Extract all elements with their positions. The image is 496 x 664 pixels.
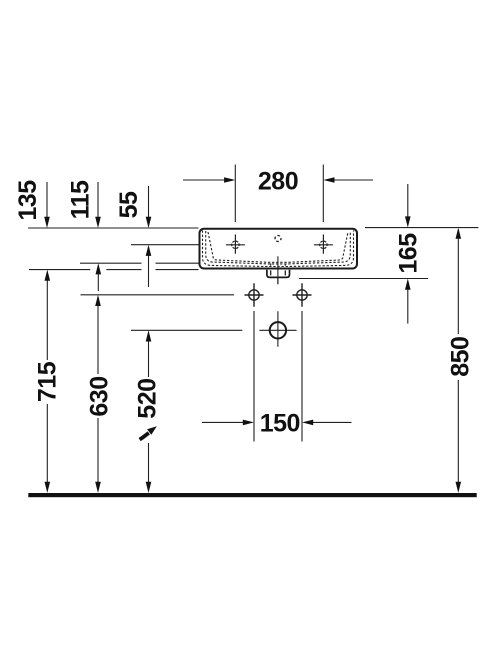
rim level line right	[365, 227, 478, 229]
arrowhead 280 left	[224, 177, 235, 183]
drain tab	[267, 270, 290, 278]
arrowhead 630 top	[95, 295, 101, 306]
arrowhead 135 up / 715 top	[45, 270, 51, 281]
arrowhead 55 up	[146, 245, 152, 256]
arrowhead 280 right	[323, 177, 334, 183]
dimension 520: shaft	[148, 333, 150, 490]
dimension 165: bottom arrow shaft	[407, 282, 409, 324]
arrowhead 630 bottom	[95, 482, 101, 493]
svg-text:150: 150	[260, 410, 300, 438]
dimension 55: top arrow shaft	[148, 186, 150, 225]
arrowhead 135 down	[44, 217, 50, 228]
svg-text:280: 280	[258, 168, 298, 196]
svg-text:715: 715	[33, 361, 61, 402]
fixing hole left	[245, 283, 264, 307]
arrowhead 850 top	[456, 228, 462, 239]
arrowhead 520 top	[146, 330, 152, 341]
tap hole left	[226, 235, 245, 254]
dimension 630: shaft	[97, 298, 99, 490]
arrowhead 115 down	[95, 217, 101, 228]
fixing hole level line (630 ref)	[81, 294, 235, 296]
arrowhead 165 down	[405, 216, 411, 227]
dimension 850: shaft	[457, 231, 459, 490]
svg-text:55: 55	[115, 191, 143, 218]
bowl wall slope (dashed, slanted)	[208, 232, 348, 262]
arrowhead 150 left	[243, 420, 254, 426]
dimension 115: top arrow shaft	[97, 182, 99, 225]
svg-text:850: 850	[446, 337, 474, 377]
arrowhead 150 right	[302, 420, 313, 426]
supply circle crosshair	[259, 311, 296, 347]
dimension 280: extension lines	[234, 165, 236, 223]
rim level line left	[28, 227, 199, 229]
dimension 135: top arrow shaft	[46, 182, 48, 225]
dimension 150: dimension line tails	[202, 421, 251, 423]
bowl inner contour (dashed, inner)	[206, 231, 351, 264]
connection arrow (bent)	[140, 426, 157, 439]
tap hole right	[314, 235, 333, 254]
arrowhead 520 bottom	[146, 482, 152, 493]
supply level line (520 ref)	[131, 329, 242, 331]
arrowhead 115 up	[96, 263, 102, 274]
drain center line	[277, 256, 279, 284]
arrowhead 850 bottom	[456, 482, 462, 493]
arrowhead 715 bottom	[45, 482, 51, 493]
bowl depth line (115 ref)	[80, 262, 199, 264]
fixing hole extension lines	[254, 311, 302, 442]
fixing hole right	[293, 283, 312, 307]
overflow marker (dashed circle)	[275, 236, 281, 242]
svg-text:165: 165	[394, 233, 422, 274]
drain center line through tab	[277, 256, 279, 284]
165 bottom extension line	[299, 278, 428, 280]
floor line	[28, 493, 476, 497]
basin bottom level line (135 ref)	[29, 269, 199, 271]
svg-text:135: 135	[14, 180, 42, 221]
arrowhead 55 down	[146, 217, 152, 228]
dimension 715/135: shared shaft	[46, 273, 48, 490]
dimension 165: top arrow shaft	[407, 184, 409, 225]
drain hidden edges (dashed)	[271, 264, 286, 269]
dimension 280: dimension line tails	[183, 179, 232, 181]
svg-text:115: 115	[66, 180, 94, 219]
supply circle	[270, 322, 286, 338]
tap-hole level line (55 ref)	[131, 244, 199, 246]
dimension 55: bottom arrow shaft	[148, 248, 150, 287]
arrowhead 165 up	[405, 279, 411, 290]
svg-text:520: 520	[134, 378, 162, 418]
basin outer outline	[200, 229, 358, 269]
svg-text:630: 630	[85, 376, 113, 416]
dimension 115: bottom arrow shaft	[97, 266, 99, 291]
bowl inner contour (dashed, outer)	[203, 231, 354, 267]
